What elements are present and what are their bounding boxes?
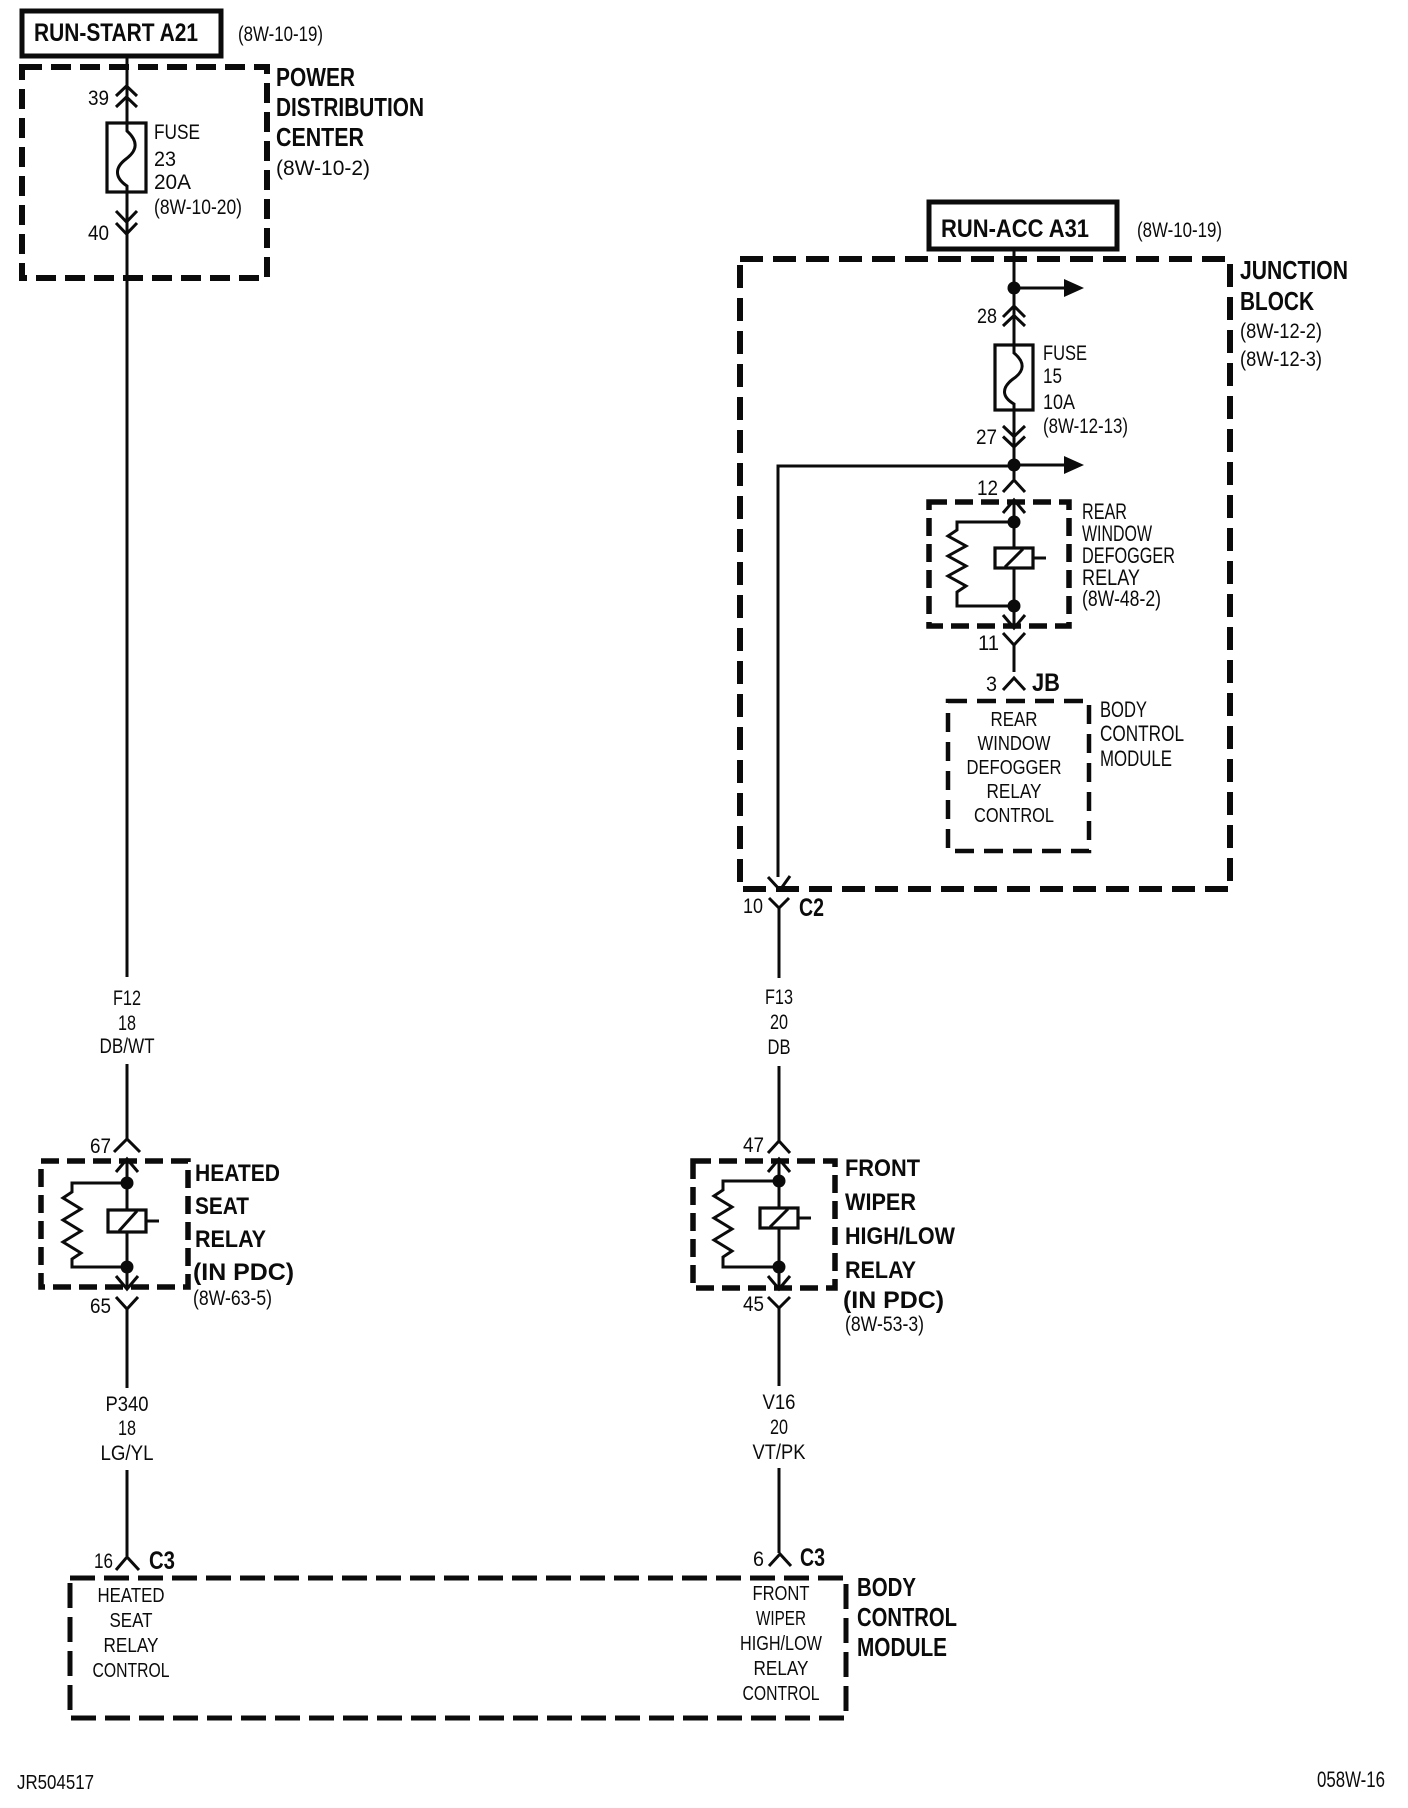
svg-text:JB: JB	[1032, 669, 1060, 697]
fuse 23 20A	[107, 123, 146, 192]
wire from fuse down through PDC border	[126, 192, 129, 977]
rear window defogger relay control dashed box	[948, 701, 1089, 851]
svg-text:BODY: BODY	[1100, 697, 1147, 722]
connector 65 female half	[116, 1297, 138, 1388]
svg-text:(IN PDC): (IN PDC)	[843, 1287, 944, 1314]
svg-text:BODY: BODY	[857, 1572, 916, 1602]
svg-text:SEAT: SEAT	[195, 1193, 249, 1220]
svg-text:RELAY: RELAY	[104, 1634, 159, 1657]
svg-text:(8W-10-19): (8W-10-19)	[238, 23, 323, 46]
svg-text:45: 45	[743, 1293, 764, 1316]
svg-text:V16: V16	[763, 1391, 796, 1414]
svg-text:HIGH/LOW: HIGH/LOW	[740, 1632, 823, 1655]
wire label P340 18 LG/YL	[101, 1393, 154, 1465]
svg-text:20: 20	[770, 1011, 788, 1034]
svg-text:WIPER: WIPER	[756, 1607, 806, 1630]
svg-text:P340: P340	[106, 1393, 149, 1416]
relay pin 12 male arrow	[1003, 500, 1025, 516]
svg-text:MODULE: MODULE	[1100, 746, 1172, 771]
relay coil K1	[108, 1183, 159, 1267]
junction dot relay bottom	[121, 1261, 134, 1274]
wire from RUN-ACC A31 into junction block to fuse	[1013, 249, 1016, 345]
connector chevrons pin 28	[1003, 306, 1025, 326]
svg-text:FRONT: FRONT	[845, 1155, 920, 1182]
svg-text:DB: DB	[768, 1036, 791, 1059]
label FUSE 23 20A (8W-10-20)	[154, 121, 242, 219]
svg-text:40: 40	[88, 222, 109, 245]
relay coil parallel resistor	[63, 1183, 127, 1267]
svg-text:15: 15	[1043, 365, 1062, 388]
svg-text:JUNCTION: JUNCTION	[1240, 255, 1348, 285]
svg-text:47: 47	[743, 1134, 764, 1157]
arrow feed right at top node	[1014, 279, 1084, 297]
relay pin 65 male arrow	[116, 1267, 138, 1289]
svg-text:CONTROL: CONTROL	[1100, 721, 1184, 746]
connector 45 female half	[768, 1297, 790, 1386]
wire label V16 20 VT/PK	[753, 1391, 806, 1464]
svg-text:DISTRIBUTION: DISTRIBUTION	[276, 92, 424, 122]
svg-text:CENTER: CENTER	[276, 122, 364, 152]
svg-text:MODULE: MODULE	[857, 1632, 947, 1662]
junction block dashed box	[740, 259, 1230, 889]
svg-text:BLOCK: BLOCK	[1240, 286, 1314, 316]
junction dot wiper relay top	[773, 1175, 786, 1188]
svg-text:SEAT: SEAT	[110, 1609, 153, 1632]
svg-text:(8W-12-13): (8W-12-13)	[1043, 415, 1128, 438]
svg-text:(8W-12-3): (8W-12-3)	[1240, 348, 1322, 371]
connector 47 female half	[768, 1141, 790, 1153]
wire branch left from mid node down to C2	[778, 466, 1014, 877]
wire to heated seat relay	[126, 1064, 129, 1139]
svg-text:HEATED: HEATED	[98, 1584, 165, 1607]
junction dot wiper relay bottom	[773, 1261, 786, 1274]
arrow into C2 at junction block exit	[768, 876, 790, 890]
label BODY CONTROL MODULE inner	[1100, 697, 1184, 771]
fuse 15 10A	[995, 345, 1033, 410]
wire to front wiper relay	[778, 1066, 781, 1141]
svg-text:C3: C3	[800, 1544, 825, 1572]
svg-text:HEATED: HEATED	[195, 1160, 280, 1187]
label REAR WINDOW DEFOGGER RELAY CONTROL	[967, 708, 1062, 827]
junction dot relay top	[121, 1177, 134, 1190]
svg-text:18: 18	[118, 1417, 136, 1440]
svg-text:(8W-10-19): (8W-10-19)	[1137, 219, 1222, 242]
svg-text:CONTROL: CONTROL	[857, 1602, 957, 1632]
svg-text:(8W-63-5): (8W-63-5)	[193, 1287, 272, 1310]
front wiper relay dashed box	[693, 1161, 835, 1288]
svg-text:LG/YL: LG/YL	[101, 1442, 154, 1465]
wire to BCM connector C3 right	[778, 1468, 781, 1553]
defogger relay parallel resistor	[948, 522, 1014, 606]
svg-text:65: 65	[90, 1295, 111, 1318]
svg-text:(8W-53-3): (8W-53-3)	[845, 1313, 924, 1336]
svg-text:RUN-START A21: RUN-START A21	[34, 19, 198, 47]
wire label F12 18 DB/WT	[100, 987, 155, 1058]
label JUNCTION BLOCK	[1240, 255, 1348, 371]
connector chevrons pin 39	[116, 86, 137, 107]
svg-text:CONTROL: CONTROL	[974, 804, 1054, 827]
svg-text:18: 18	[118, 1012, 136, 1035]
relay pin 67 male arrow	[116, 1159, 138, 1177]
svg-text:RELAY: RELAY	[845, 1257, 916, 1284]
svg-text:67: 67	[90, 1135, 111, 1158]
label HEATED SEAT RELAY CONTROL	[93, 1584, 170, 1682]
connector 6 C3 female half	[769, 1554, 791, 1566]
svg-text:REAR: REAR	[991, 708, 1038, 731]
svg-text:27: 27	[976, 426, 997, 449]
defogger relay coil	[995, 522, 1046, 606]
svg-text:3: 3	[986, 673, 997, 696]
junction node dot mid	[1008, 459, 1021, 472]
svg-text:WIPER: WIPER	[845, 1189, 916, 1216]
svg-text:WINDOW: WINDOW	[978, 732, 1052, 755]
wire from fuse 15 to junction node	[1013, 410, 1016, 479]
svg-text:F13: F13	[765, 986, 793, 1009]
svg-text:(8W-10-20): (8W-10-20)	[154, 196, 242, 219]
connector 67 female half	[114, 1139, 140, 1152]
node RUN-ACC A31 title box	[929, 202, 1117, 249]
svg-text:CONTROL: CONTROL	[743, 1682, 820, 1705]
label FRONT WIPER HIGH/LOW RELAY CONTROL	[740, 1582, 823, 1705]
svg-text:(8W-12-2): (8W-12-2)	[1240, 320, 1322, 343]
connector chevrons pin 40	[116, 211, 137, 234]
svg-text:23: 23	[154, 148, 176, 171]
wiper relay parallel resistor	[714, 1181, 779, 1267]
svg-text:6: 6	[753, 1548, 764, 1571]
svg-text:HIGH/LOW: HIGH/LOW	[845, 1223, 955, 1250]
svg-text:DEFOGGER: DEFOGGER	[967, 756, 1062, 779]
connector 11 female half	[1003, 633, 1025, 672]
svg-text:28: 28	[977, 305, 997, 328]
svg-text:10A: 10A	[1043, 391, 1075, 414]
rear window defogger relay dashed box	[929, 502, 1069, 626]
connector 10 C2 female half	[769, 898, 789, 978]
label HEATED SEAT RELAY (IN PDC) (8W-63-5)	[193, 1160, 294, 1310]
svg-text:CONTROL: CONTROL	[93, 1659, 170, 1682]
label REAR WINDOW DEFOGGER RELAY (8W-48-2)	[1082, 499, 1175, 611]
relay pin 47 male arrow	[768, 1159, 790, 1176]
svg-text:(8W-10-2): (8W-10-2)	[276, 157, 370, 180]
svg-text:C3: C3	[149, 1547, 175, 1575]
svg-text:VT/PK: VT/PK	[753, 1441, 806, 1464]
svg-text:JR504517: JR504517	[17, 1772, 94, 1794]
svg-text:RELAY: RELAY	[195, 1226, 266, 1253]
svg-text:FRONT: FRONT	[753, 1582, 810, 1605]
relay pin 11 male arrow	[1003, 606, 1025, 628]
svg-text:20A: 20A	[154, 171, 191, 194]
node RUN-START A21 title box	[22, 11, 221, 56]
svg-text:16: 16	[94, 1550, 113, 1573]
svg-text:RELAY: RELAY	[987, 780, 1042, 803]
wire label F13 20 DB	[765, 986, 793, 1059]
svg-text:39: 39	[88, 87, 109, 110]
svg-text:FUSE: FUSE	[154, 121, 200, 144]
connector chevrons pin 27	[1003, 426, 1025, 447]
svg-text:(8W-48-2): (8W-48-2)	[1082, 586, 1161, 611]
wiper relay coil	[760, 1181, 811, 1267]
power distribution center dashed box	[22, 67, 267, 278]
svg-text:(IN PDC): (IN PDC)	[193, 1259, 294, 1286]
arrow feed right at mid node	[1014, 456, 1084, 474]
svg-text:12: 12	[977, 477, 998, 500]
svg-text:20: 20	[770, 1416, 788, 1439]
svg-text:FUSE: FUSE	[1043, 342, 1087, 365]
svg-text:F12: F12	[113, 987, 141, 1010]
body control module dashed box	[70, 1578, 846, 1718]
svg-text:058W-16: 058W-16	[1317, 1767, 1385, 1792]
wire from RUN-START A21 into PDC to fuse	[126, 56, 129, 123]
svg-text:POWER: POWER	[276, 62, 355, 92]
relay pin 45 male arrow	[768, 1267, 790, 1289]
svg-text:RUN-ACC A31: RUN-ACC A31	[941, 215, 1089, 243]
connector 16 C3 female half	[116, 1557, 139, 1570]
svg-text:DB/WT: DB/WT	[100, 1035, 155, 1058]
junction dot defogger relay top	[1008, 516, 1021, 529]
connector 12 female half	[1003, 480, 1025, 492]
svg-text:C2: C2	[799, 894, 824, 922]
label FRONT WIPER HIGH/LOW RELAY (IN PDC) (8W-53-3)	[843, 1155, 955, 1336]
label POWER DISTRIBUTION CENTER	[276, 62, 424, 180]
label BODY CONTROL MODULE bottom	[857, 1572, 957, 1662]
svg-text:RELAY: RELAY	[754, 1657, 809, 1680]
label FUSE 15 10A (8W-12-13)	[1043, 342, 1128, 438]
svg-text:10: 10	[743, 895, 763, 918]
svg-text:11: 11	[978, 632, 999, 655]
junction dot defogger relay bottom	[1008, 600, 1021, 613]
wire to BCM connector C3	[126, 1470, 129, 1556]
heated seat relay dashed box	[41, 1161, 188, 1287]
junction node dot top	[1008, 282, 1021, 295]
connector 3 JB female half	[1003, 678, 1025, 690]
